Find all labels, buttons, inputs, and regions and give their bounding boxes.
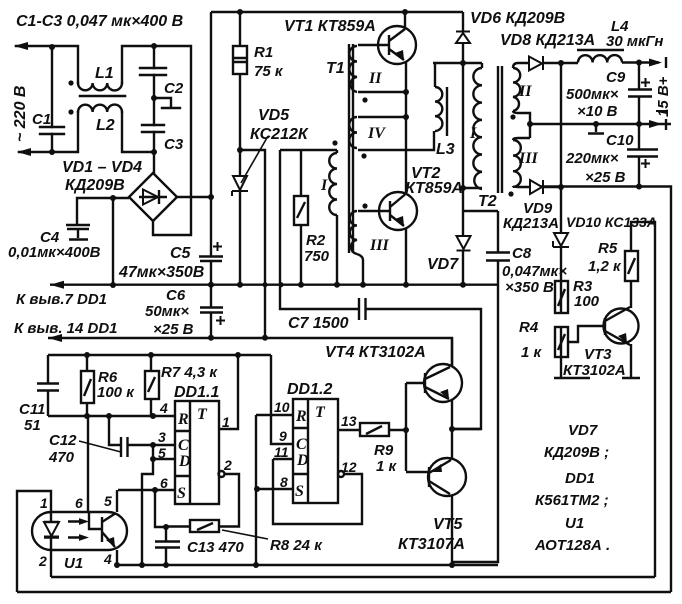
svg-text:C1-C3 0,047 мк×400 В: C1-C3 0,047 мк×400 В	[16, 13, 183, 30]
svg-text:R: R	[295, 408, 307, 425]
svg-text:IV: IV	[367, 125, 386, 142]
svg-text:500мк×: 500мк×	[566, 86, 619, 103]
svg-text:×350 В: ×350 В	[505, 279, 554, 296]
svg-text:0,047мк×: 0,047мк×	[502, 263, 567, 280]
svg-text:1 к: 1 к	[521, 344, 543, 361]
svg-text:Т1: Т1	[326, 60, 345, 77]
svg-text:8: 8	[280, 474, 288, 490]
svg-text:R1: R1	[254, 44, 273, 61]
svg-text:1 к: 1 к	[376, 458, 398, 475]
svg-text:C: C	[296, 436, 307, 453]
svg-text:9: 9	[279, 428, 287, 444]
svg-text:C10: C10	[606, 132, 634, 149]
svg-text:S: S	[177, 485, 186, 502]
svg-text:C13 470: C13 470	[187, 539, 244, 556]
svg-text:VT3: VT3	[584, 346, 612, 363]
svg-text:10: 10	[274, 399, 290, 415]
svg-text:5: 5	[104, 493, 112, 509]
svg-text:КС212К: КС212К	[250, 126, 309, 143]
svg-text:11: 11	[274, 444, 289, 460]
svg-text:U1: U1	[64, 555, 83, 572]
svg-text:I: I	[320, 177, 328, 194]
svg-text:R: R	[177, 411, 189, 428]
svg-text:VT1 КТ859А: VT1 КТ859А	[284, 18, 376, 35]
svg-text:DD1: DD1	[565, 470, 595, 487]
svg-text:0,01мк×400В: 0,01мк×400В	[8, 244, 101, 261]
svg-text:I: I	[469, 125, 477, 142]
svg-text:C: C	[178, 437, 189, 454]
svg-text:VD10 КС133А: VD10 КС133А	[566, 214, 657, 230]
svg-text:15 В+: 15 В+	[655, 76, 672, 117]
svg-text:100: 100	[574, 293, 600, 310]
svg-text:47мк×350В: 47мк×350В	[118, 264, 204, 281]
svg-text:1,2 к: 1,2 к	[588, 258, 622, 275]
svg-text:КД213А: КД213А	[503, 215, 559, 232]
svg-text:DD1.1: DD1.1	[174, 384, 219, 401]
svg-text:R9: R9	[374, 442, 394, 459]
svg-text:220мк×: 220мк×	[565, 150, 619, 167]
svg-text:1: 1	[40, 495, 48, 511]
svg-text:2: 2	[223, 457, 232, 473]
svg-text:3: 3	[158, 429, 166, 445]
svg-text:III: III	[369, 237, 389, 254]
svg-text:×25 В: ×25 В	[153, 321, 194, 338]
svg-text:4: 4	[103, 551, 112, 567]
svg-text:R2: R2	[306, 232, 326, 249]
svg-text:КТ3107А: КТ3107А	[398, 536, 465, 553]
svg-text:II: II	[368, 70, 382, 87]
svg-text:L1: L1	[95, 65, 114, 82]
svg-text:C8: C8	[512, 245, 532, 262]
svg-text:T: T	[315, 404, 326, 421]
svg-text:Т2: Т2	[478, 193, 497, 210]
svg-text:L2: L2	[96, 117, 115, 134]
svg-text:R4: R4	[519, 319, 539, 336]
svg-text:II: II	[518, 83, 532, 100]
svg-text:×25 В: ×25 В	[585, 169, 626, 186]
svg-text:VD5: VD5	[258, 107, 290, 124]
svg-text:470: 470	[48, 449, 75, 466]
svg-text:КД209В: КД209В	[65, 177, 125, 194]
svg-text:К выв. 14 DD1: К выв. 14 DD1	[14, 320, 118, 337]
svg-text:L3: L3	[436, 141, 455, 158]
svg-text:VD6 КД209В: VD6 КД209В	[470, 10, 565, 27]
svg-text:DD1.2: DD1.2	[287, 381, 332, 398]
svg-text:R7 4,3 к: R7 4,3 к	[161, 364, 218, 381]
svg-text:S: S	[295, 483, 304, 500]
svg-text:C2: C2	[164, 80, 184, 97]
svg-text:D: D	[178, 453, 191, 470]
svg-text:VT4 КТ3102А: VT4 КТ3102А	[325, 344, 426, 361]
svg-text:К561ТМ2 ;: К561ТМ2 ;	[535, 492, 609, 509]
svg-text:4: 4	[159, 400, 168, 416]
svg-text:5: 5	[158, 445, 166, 461]
svg-text:2: 2	[38, 553, 47, 569]
svg-text:VD7: VD7	[427, 256, 459, 273]
svg-text:C3: C3	[164, 136, 184, 153]
svg-text:U1: U1	[565, 515, 584, 532]
svg-text:C7 1500: C7 1500	[288, 315, 349, 332]
svg-text:КТ859А: КТ859А	[405, 180, 463, 197]
svg-text:АОТ128А .: АОТ128А .	[534, 537, 610, 554]
svg-text:КД209В ;: КД209В ;	[544, 444, 609, 461]
svg-text:100 к: 100 к	[97, 384, 135, 401]
svg-text:VD8 КД213А: VD8 КД213А	[500, 32, 595, 49]
svg-text:T: T	[197, 406, 208, 423]
svg-text:C12: C12	[49, 432, 77, 449]
svg-text:С11: С11	[19, 401, 45, 418]
svg-text:КТ3102А: КТ3102А	[563, 362, 626, 379]
svg-text:D: D	[296, 452, 309, 469]
svg-text:С5: С5	[170, 245, 192, 262]
svg-text:III: III	[518, 150, 538, 167]
svg-text:К выв.7 DD1: К выв.7 DD1	[16, 291, 107, 308]
svg-text:75 к: 75 к	[254, 63, 284, 80]
svg-text:13: 13	[341, 413, 357, 429]
svg-text:VD7: VD7	[568, 422, 598, 439]
svg-text:30 мкГн: 30 мкГн	[606, 33, 663, 50]
svg-text:1: 1	[222, 414, 230, 430]
svg-text:VD1 – VD4: VD1 – VD4	[62, 159, 142, 176]
svg-text:51: 51	[24, 417, 41, 434]
svg-text:R8 24 к: R8 24 к	[270, 537, 323, 554]
svg-text:С6: С6	[166, 287, 186, 304]
svg-text:VT5: VT5	[433, 516, 463, 533]
svg-text:750: 750	[304, 248, 330, 265]
svg-text:6: 6	[160, 475, 168, 491]
svg-text:~ 220 В: ~ 220 В	[12, 86, 29, 142]
svg-text:6: 6	[75, 495, 83, 511]
svg-text:C9: C9	[606, 69, 626, 86]
svg-text:50мк×: 50мк×	[145, 303, 189, 320]
svg-text:R5: R5	[598, 240, 618, 257]
svg-text:×10 В: ×10 В	[577, 103, 618, 120]
svg-text:C1: C1	[32, 111, 51, 128]
svg-text:12: 12	[341, 459, 357, 475]
